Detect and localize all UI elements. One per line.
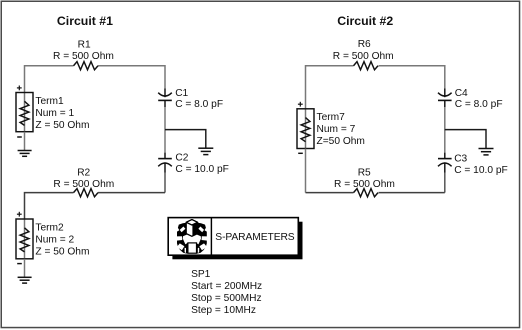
wire junction branch to ground circuit 2: [445, 130, 486, 149]
svg-text:R = 500 Ohm: R = 500 Ohm: [334, 179, 395, 190]
divider icon cell: [210, 218, 212, 256]
svg-text:Term7: Term7: [317, 112, 346, 123]
wire Term7 down to bottom rail: [305, 149, 307, 193]
svg-text:R = 500 Ohm: R = 500 Ohm: [333, 51, 394, 62]
svg-text:R2: R2: [77, 167, 90, 178]
svg-text:R6: R6: [358, 39, 371, 50]
wire bottom rail circuit 2 right (C3 to R5): [379, 192, 445, 194]
capacitor C3: [438, 153, 452, 173]
svg-text:Z = 50 Ohm: Z = 50 Ohm: [35, 247, 89, 258]
svg-text:R5: R5: [358, 167, 371, 178]
white gear face: [183, 234, 201, 244]
white teeth notches: [180, 227, 186, 233]
wire bottom rail circuit 2 left (R5 to Term7): [306, 192, 354, 194]
svg-text:S-PARAMETERS: S-PARAMETERS: [215, 232, 295, 243]
resistor R6: [354, 62, 379, 70]
wire bottom rail left (R2 to Term2): [25, 193, 74, 219]
capacitor C4: [438, 89, 452, 108]
svg-text:Term2: Term2: [35, 223, 64, 234]
svg-text:C = 8.0 pF: C = 8.0 pF: [455, 99, 503, 110]
ground right circuit 2: [479, 149, 494, 155]
svg-text:Start = 200MHz: Start = 200MHz: [191, 281, 262, 292]
controller SP1 S-PARAMETERS box: [168, 218, 298, 256]
svg-text:Step = 10MHz: Step = 10MHz: [191, 305, 256, 316]
resistor R5: [354, 189, 379, 197]
svg-text:Num = 1: Num = 1: [35, 108, 74, 119]
svg-text:Z=50 Ohm: Z=50 Ohm: [317, 136, 365, 147]
wire top rail right (R1 to C1): [98, 66, 165, 89]
wire C3 down to bottom rail: [444, 173, 446, 193]
svg-text:C = 10.0 pF: C = 10.0 pF: [454, 165, 508, 176]
svg-text:R = 500 Ohm: R = 500 Ohm: [53, 51, 114, 62]
wire C4 to C3: [444, 107, 446, 153]
svg-text:R = 500 Ohm: R = 500 Ohm: [53, 179, 114, 190]
svg-text:C3: C3: [454, 154, 467, 165]
central cuboid: [186, 220, 197, 237]
wire junction branch to ground: [165, 130, 206, 149]
ground mid circuit 1: [198, 148, 213, 154]
capacitor C1: [158, 89, 172, 108]
svg-text:R1: R1: [78, 39, 91, 50]
wire top rail left (Term1 to R1): [25, 66, 74, 93]
svg-text:SP1: SP1: [191, 269, 211, 280]
terminal Term2: [16, 212, 33, 264]
ground under Term1: [18, 151, 32, 157]
svg-text:Stop = 500MHz: Stop = 500MHz: [191, 293, 262, 304]
svg-text:C = 8.0 pF: C = 8.0 pF: [175, 99, 223, 110]
wire C1 to C2: [164, 107, 166, 153]
simulation gear icon: [176, 220, 207, 254]
svg-text:C1: C1: [175, 88, 188, 99]
svg-text:Circuit #1: Circuit #1: [57, 14, 113, 28]
svg-text:C4: C4: [455, 88, 468, 99]
terminal Term7: [297, 102, 314, 154]
controller SP1 S-PARAMETERS box shadow: [172, 222, 302, 260]
resistor R1: [74, 62, 99, 70]
resistor R2: [74, 189, 99, 197]
capacitor C2: [158, 153, 172, 173]
wire top rail right circuit 2 (R6 to C4): [379, 66, 445, 89]
svg-text:Num = 7: Num = 7: [317, 124, 356, 135]
svg-text:Num = 2: Num = 2: [35, 235, 74, 246]
bottom stem: [188, 243, 197, 253]
wire C2 down to bottom rail: [164, 173, 166, 193]
svg-text:Circuit #2: Circuit #2: [337, 14, 393, 28]
wire top rail left circuit 2 (Term7 to R6): [306, 66, 354, 109]
svg-text:Z = 50 Ohm: Z = 50 Ohm: [35, 120, 89, 131]
wire Term2 to ground: [24, 259, 26, 278]
terminal Term1: [16, 86, 33, 138]
wire bottom rail right (C2 to R2): [98, 192, 165, 194]
svg-text:C2: C2: [175, 152, 188, 163]
wire Term1 to ground: [24, 132, 26, 151]
svg-text:Term1: Term1: [35, 96, 64, 107]
svg-text:C = 10.0 pF: C = 10.0 pF: [175, 164, 229, 175]
ground under Term2: [18, 277, 32, 283]
